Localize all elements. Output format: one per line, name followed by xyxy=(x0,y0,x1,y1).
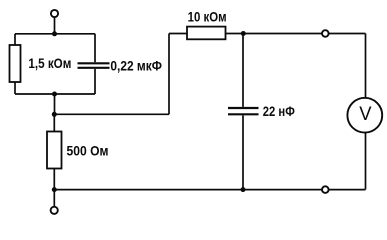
terminal: input bottom xyxy=(51,207,58,214)
terminal: output bottom (inline) xyxy=(322,186,329,193)
junction: node at top of box xyxy=(52,31,57,36)
wire: bottom terminal stem xyxy=(53,190,55,207)
svg-text:10 кОм: 10 кОм xyxy=(188,8,227,24)
wire: parallel-box left side xyxy=(14,34,16,94)
wire: bottom rail xyxy=(54,189,365,191)
wire: 500 Ohm branch vertical xyxy=(53,114,55,189)
wire: parallel-box top xyxy=(15,33,95,35)
wire: top terminal stem xyxy=(54,17,56,34)
svg-text:V: V xyxy=(359,104,372,125)
resistor R2 10 kOhm xyxy=(187,27,226,40)
wire: right side down to voltmeter and bottom xyxy=(365,34,367,190)
voltmeter U1 xyxy=(347,98,382,133)
wire: top rail xyxy=(169,33,366,35)
resistor R3 500 Ohm xyxy=(47,132,62,169)
terminal: output top (inline) xyxy=(322,30,329,37)
capacitor C1 0,22 uF xyxy=(78,63,110,68)
junction: node A (middle wire / 500 Ohm) xyxy=(52,112,57,117)
svg-text:500 Ом: 500 Ом xyxy=(67,142,109,158)
svg-text:0,22 мкФ: 0,22 мкФ xyxy=(110,57,162,73)
svg-text:1,5 кОм: 1,5 кОм xyxy=(28,55,71,71)
junction: bottom-left node xyxy=(52,187,57,192)
svg-text:22 нФ: 22 нФ xyxy=(263,103,295,119)
junction: bottom rail / 22 nF xyxy=(241,187,246,192)
capacitor C2 22 nF xyxy=(228,108,259,114)
wire: node A vertical (box bottom to node) xyxy=(54,94,56,114)
wire: middle horizontal to riser xyxy=(54,113,169,115)
junction: node at bottom of box xyxy=(52,92,57,97)
wire: 22 nF branch (gap for C2) xyxy=(242,34,244,190)
wire: parallel-box right side (gap for C1) xyxy=(94,34,96,94)
wire: riser up to top rail xyxy=(168,34,170,115)
terminal: input top xyxy=(51,10,58,17)
resistor R1 1,5 kOhm xyxy=(10,45,21,82)
junction: top rail / 22 nF xyxy=(241,31,246,36)
wire: parallel-box bottom xyxy=(15,93,95,95)
